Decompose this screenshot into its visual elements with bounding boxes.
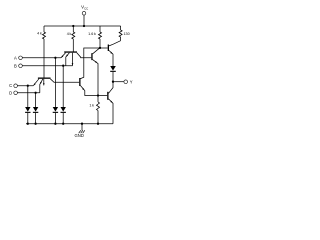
svg-text:4 k: 4 k bbox=[67, 32, 72, 36]
svg-text:CC: CC bbox=[84, 6, 88, 10]
svg-text:B: B bbox=[14, 63, 17, 68]
svg-text:130: 130 bbox=[124, 32, 130, 36]
svg-text:Y: Y bbox=[130, 79, 133, 84]
svg-text:C: C bbox=[9, 83, 12, 88]
svg-text:4 k: 4 k bbox=[37, 32, 42, 36]
svg-text:A: A bbox=[14, 55, 17, 60]
svg-text:1.6 k: 1.6 k bbox=[88, 32, 96, 36]
svg-text:D: D bbox=[9, 90, 12, 95]
svg-text:1 k: 1 k bbox=[89, 104, 94, 108]
svg-text:GND: GND bbox=[75, 133, 84, 138]
